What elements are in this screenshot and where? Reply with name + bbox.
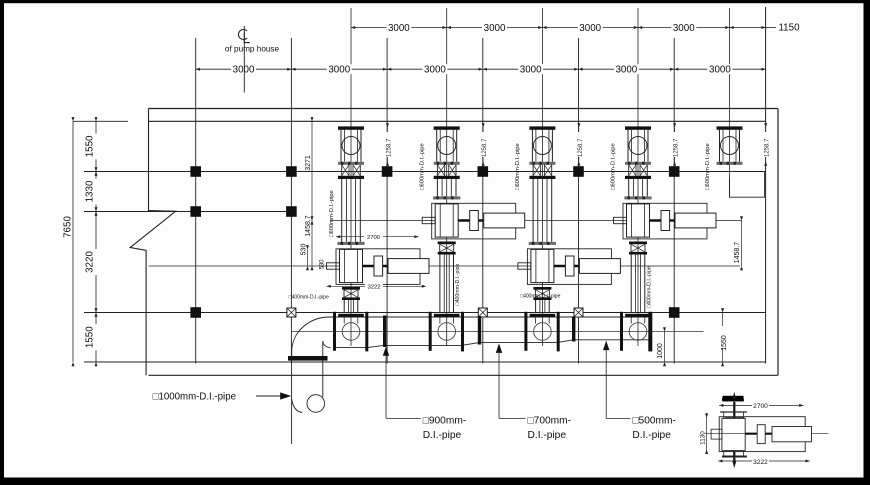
header bottom under tee 2 xyxy=(429,344,461,346)
intake unit U5: top flange xyxy=(717,126,743,129)
dim 3271 xyxy=(311,121,313,220)
header tee 4: branch circle xyxy=(629,323,647,341)
svg-text:□400mm-D.I.-pipe: □400mm-D.I.-pipe xyxy=(289,295,329,301)
header tee 1: branch pipe walls xyxy=(343,317,345,324)
1000mm pipe break symbol xyxy=(307,395,325,413)
pump P4: motor M4 xyxy=(675,213,716,228)
header tee 3: left flange xyxy=(524,312,527,351)
dim 7650 overall vertical line xyxy=(72,121,74,362)
column at grid 2 row B xyxy=(286,166,297,177)
svg-text:of pump house: of pump house xyxy=(225,45,280,54)
detail: top flange xyxy=(720,411,747,413)
svg-text:3000: 3000 xyxy=(233,65,255,76)
svg-text:3000: 3000 xyxy=(709,65,731,76)
header tee 2: right flange xyxy=(461,312,464,352)
grid row C xyxy=(84,211,292,213)
svg-text:1130: 1130 xyxy=(700,431,707,445)
svg-text:3000: 3000 xyxy=(484,23,506,34)
detail: baseplate xyxy=(719,417,805,452)
leader arrow for 700mm xyxy=(496,343,502,353)
reducer flange at x=573.5 xyxy=(572,317,575,342)
svg-text:3222: 3222 xyxy=(753,459,768,466)
svg-text:3000: 3000 xyxy=(388,23,410,34)
svg-text:D.I.-pipe: D.I.-pipe xyxy=(528,430,567,441)
svg-text:□600mm-D.I.-pipe: □600mm-D.I.-pipe xyxy=(420,143,426,190)
header tee 1: branch circle xyxy=(342,323,360,341)
riser pipe column 1 from y=179 to y=241.9 xyxy=(341,179,343,242)
detail: coupling xyxy=(757,425,765,444)
svg-text:1150: 1150 xyxy=(778,23,800,34)
svg-text:□600mm-D.I.-pipe: □600mm-D.I.-pipe xyxy=(705,143,711,190)
svg-text:3271: 3271 xyxy=(305,155,312,171)
left chain tick at y=312.5 xyxy=(95,308,98,316)
dim 3222 line xyxy=(327,285,427,287)
crossed square marker at grid x=291.4 row D xyxy=(287,308,296,317)
column at grid 5 row B xyxy=(573,166,584,177)
svg-text:1330: 1330 xyxy=(85,180,96,202)
svg-text:1458.7: 1458.7 xyxy=(734,242,741,264)
border frame right xyxy=(864,0,870,485)
header tee 3: branch pipe walls xyxy=(535,317,537,324)
pump P1: coupling xyxy=(374,256,383,276)
leader arrow for 900mm xyxy=(383,346,389,356)
riser pipe column 4 from y=179 to y=196.4 xyxy=(628,179,630,196)
pump P1: baseplate xyxy=(336,249,420,285)
intake unit U3: support truss xyxy=(532,165,534,176)
column at grid 1 row C xyxy=(190,206,201,217)
pump P4: coupling xyxy=(661,211,670,231)
pump P4: shaft xyxy=(650,219,676,221)
pump P1: suction flange (gray) xyxy=(337,242,364,245)
header reducer 900-700 xyxy=(461,343,479,346)
detail: top arrowheads on centerline xyxy=(732,393,736,400)
dim 3000 ticks row2 seg 5 xyxy=(579,68,583,71)
svg-text:3220: 3220 xyxy=(85,251,96,273)
pump P3: casing xyxy=(531,249,554,282)
svg-text:□600mm-D.I.-pipe: □600mm-D.I.-pipe xyxy=(515,143,521,190)
intake unit U5: lower flange (gray) xyxy=(717,162,743,165)
pump P2: suction flange (gray) xyxy=(433,196,460,199)
pipe column 4 centerline xyxy=(637,8,639,346)
pump P2: motor M2 xyxy=(484,213,525,228)
wall: top outer xyxy=(149,108,779,110)
dim text 1330 left chain xyxy=(91,179,102,205)
header bottom edge 1000mm section xyxy=(333,347,367,349)
header tee 2: branch pipe walls xyxy=(439,317,441,324)
pump P3: side nozzle xyxy=(518,263,531,269)
column at grid 4 row B xyxy=(478,166,489,177)
elbow inner arc xyxy=(323,341,331,348)
intake unit U3: body walls xyxy=(531,130,533,162)
header tee 3: right flange xyxy=(557,312,560,352)
svg-text:□900mm-: □900mm- xyxy=(423,416,467,427)
column at grid 6 row B xyxy=(669,166,680,177)
pump P2: side nozzle xyxy=(422,217,435,223)
left chain tick at y=362.0 xyxy=(95,362,98,366)
pump P1: casing pipe walls xyxy=(344,249,346,282)
intake unit U1: lower flange (gray) xyxy=(338,162,364,165)
1000mm pipe walls below flange xyxy=(291,361,293,444)
header tee 2: branch circle xyxy=(438,323,456,341)
dim 1258.7 at x=676.4 (rotated) xyxy=(674,128,676,162)
svg-text:1550: 1550 xyxy=(85,326,96,348)
svg-text:1258.7: 1258.7 xyxy=(482,138,488,157)
svg-text:1258.7: 1258.7 xyxy=(674,138,680,157)
centerline of pump house: vertical line xyxy=(243,26,245,93)
intake unit U4: base flange xyxy=(625,176,651,179)
header tee 1: top connection bar xyxy=(338,314,364,317)
grid line 3 vertical xyxy=(386,38,388,364)
intake unit U4: lower flange (gray) xyxy=(625,162,651,165)
header pipe top edge xyxy=(329,316,650,318)
left chain tick at y=121.3 xyxy=(95,117,98,121)
wall: right outer xyxy=(777,109,779,376)
dim 1000 right xyxy=(664,332,666,363)
header reducer 1000-900 xyxy=(367,345,385,347)
pump P4: casing pipe walls xyxy=(631,204,633,237)
svg-text:2700: 2700 xyxy=(367,235,381,241)
grid line 1 vertical xyxy=(195,38,197,364)
dim 1458.7 left xyxy=(311,221,313,267)
pipe column 2 centerline xyxy=(446,8,448,346)
wall: bottom outer xyxy=(149,374,779,376)
wall: top inner xyxy=(73,120,128,122)
pump P2: downpipe to header xyxy=(439,255,441,314)
detail: dim 3222 xyxy=(718,460,809,462)
crossed square marker at grid x=482.8 row D xyxy=(478,308,487,317)
intake unit U3: circle xyxy=(533,137,551,155)
1000mm pipe walls above flange xyxy=(291,352,293,357)
dim 3000 ticks row2 seg 3 xyxy=(387,68,391,71)
pump P3: shaft xyxy=(554,265,580,267)
pump P1: discharge flange pair and bracing xyxy=(342,287,360,290)
svg-text:3000: 3000 xyxy=(579,23,601,34)
left chain tick at y=171.5 xyxy=(95,167,98,175)
grid line 4 vertical xyxy=(482,38,484,364)
header tee 3: top connection bar xyxy=(530,314,556,317)
detail: shaft xyxy=(745,433,772,435)
dim 3000 ticks row2 seg 4 xyxy=(483,68,487,71)
dim text 3220 left chain xyxy=(91,249,102,275)
svg-text:3000: 3000 xyxy=(520,65,542,76)
dim text 1550 left chain xyxy=(91,324,102,350)
svg-text:□400mm-D.I.-pipe: □400mm-D.I.-pipe xyxy=(455,264,461,306)
wall: bottom inner xyxy=(84,361,766,363)
pump P1: motor M1 xyxy=(388,259,429,274)
header tee 3: branch circle xyxy=(534,323,552,341)
detail: bottom arrow xyxy=(732,461,736,468)
pump axis centerline lower (pumps 1 and 3) xyxy=(149,265,741,267)
grid row B xyxy=(84,171,766,173)
header tee 2: left flange xyxy=(429,312,432,351)
header pipe centerline xyxy=(292,331,704,333)
header tee 4: left flange xyxy=(620,312,623,351)
svg-text:1258.7: 1258.7 xyxy=(765,138,771,157)
svg-text:D.I.-pipe: D.I.-pipe xyxy=(423,430,462,441)
pump P1: shaft xyxy=(363,265,389,267)
column at grid 3 row B xyxy=(382,166,393,177)
intake unit U3: base flange xyxy=(529,176,555,179)
pump P2: baseplate xyxy=(432,203,516,239)
grid row D xyxy=(84,312,766,314)
reducer flange at x=384.5 xyxy=(383,316,386,348)
intake unit U5: circle xyxy=(721,137,739,155)
detail: horizontal centerline xyxy=(705,433,829,435)
intake unit U1: base flange xyxy=(338,176,364,179)
dim 3000 ticks row2 seg 1 xyxy=(196,68,200,71)
pump P2: casing xyxy=(435,204,458,237)
intake unit U1: circle xyxy=(342,137,360,155)
intake unit U4: body walls xyxy=(627,130,629,162)
pump P3: coupling xyxy=(565,256,574,276)
dim 1258.7 at x=580.7 (rotated) xyxy=(578,128,580,162)
intake unit U5: body walls xyxy=(719,130,721,162)
recess outline at column 5 xyxy=(730,172,765,198)
intake unit U4: circle xyxy=(629,137,647,155)
dim 1258.7 at x=485 (rotated) xyxy=(482,128,484,162)
svg-text:530: 530 xyxy=(301,244,308,256)
pump P4: casing xyxy=(627,204,650,237)
header bottom edge 900mm section xyxy=(385,344,430,346)
svg-text:3222: 3222 xyxy=(367,285,380,291)
elbow outer arc xyxy=(292,317,330,352)
dim 3000 ticks row2 seg 2 xyxy=(291,68,295,71)
pump P4: downpipe to header xyxy=(630,255,632,314)
grid line 2 vertical xyxy=(290,38,292,364)
detail: motor xyxy=(772,427,812,442)
grid line 6 vertical xyxy=(673,38,675,364)
dim 530 xyxy=(307,249,309,266)
pump P4: baseplate xyxy=(623,203,707,239)
dim 1258.7 at x=389.3 (rotated) xyxy=(387,128,389,162)
pump P1: casing xyxy=(340,249,363,282)
svg-text:7650: 7650 xyxy=(63,216,74,238)
svg-text:1550: 1550 xyxy=(721,335,728,351)
intake unit U2: top flange xyxy=(434,126,460,129)
pump P3: suction flange (gray) xyxy=(529,242,556,245)
svg-text:□600mm-D.I.-pipe: □600mm-D.I.-pipe xyxy=(329,190,335,237)
header tee 4: right flange xyxy=(648,312,652,352)
svg-text:1258.7: 1258.7 xyxy=(578,138,584,157)
svg-text:1000: 1000 xyxy=(657,343,664,359)
detail: bottom flange xyxy=(725,450,745,452)
intake unit U2: support truss xyxy=(436,165,438,176)
column at grid 1 row D xyxy=(190,307,201,318)
header tee 2: top connection bar xyxy=(434,314,460,317)
intake unit U1: top flange xyxy=(338,126,364,129)
svg-text:530: 530 xyxy=(320,259,326,270)
svg-text:D.I.-pipe: D.I.-pipe xyxy=(632,430,671,441)
svg-text:□1000mm-D.I.-pipe: □1000mm-D.I.-pipe xyxy=(153,391,236,402)
svg-text:□400mm-D.I.-pipe: □400mm-D.I.-pipe xyxy=(647,266,653,308)
dim 1258.7 at x=767.5 (rotated) xyxy=(765,128,767,162)
reducer flange at x=479.3 xyxy=(478,316,481,345)
intake unit U4: top flange xyxy=(625,126,651,129)
centerline symbol CL xyxy=(238,29,247,39)
svg-text:1550: 1550 xyxy=(85,135,96,157)
left chain tick at y=211.5 xyxy=(95,207,98,215)
header reducer 700-500 xyxy=(557,340,574,343)
dim text 1550 left chain xyxy=(91,133,102,159)
svg-text:□600mm-D.I.-pipe: □600mm-D.I.-pipe xyxy=(611,143,617,190)
column at grid 6 row D xyxy=(669,307,680,318)
column at grid 2 row C xyxy=(286,206,297,217)
intake unit U1: body walls xyxy=(340,130,342,162)
pump P1: side nozzle xyxy=(327,263,340,269)
dim 2700 line xyxy=(336,236,419,238)
detail: left nozzle xyxy=(711,429,722,439)
intake unit U3: top flange xyxy=(529,126,555,129)
pipe column 3 centerline xyxy=(541,8,543,346)
dim 3000 ticks between col 4 and col 5 xyxy=(638,26,642,29)
pump P2: coupling xyxy=(470,211,479,231)
dim 1458.7 right xyxy=(741,221,743,267)
pump P4: discharge flange pair and bracing xyxy=(629,242,647,245)
svg-text:3000: 3000 xyxy=(615,65,637,76)
svg-text:2700: 2700 xyxy=(753,403,768,410)
pump P3: discharge flange pair and bracing xyxy=(533,287,551,290)
detail: vertical centerline xyxy=(733,393,735,468)
pump P3: casing pipe walls xyxy=(535,249,537,282)
intake unit U2: base flange xyxy=(434,176,460,179)
header tee 1: right flange xyxy=(365,312,368,352)
pump P4: side nozzle xyxy=(614,217,627,223)
intake unit U2: circle xyxy=(438,137,456,155)
header tee 1: left flange xyxy=(333,312,336,351)
header tee 4: branch pipe walls xyxy=(630,317,632,324)
intake unit U2: body walls xyxy=(436,130,438,162)
border frame xyxy=(0,0,870,3)
grid line 5 vertical xyxy=(578,38,580,364)
pump P1: downpipe to header xyxy=(343,300,345,313)
intake unit U4: support truss xyxy=(628,165,630,176)
crossed square marker at grid x=578.5 row D xyxy=(574,308,583,317)
svg-text:1458.7: 1458.7 xyxy=(305,215,312,237)
dim 1550 right xyxy=(722,313,724,363)
dim 3000 ticks row2 seg 6 xyxy=(674,68,678,71)
intake unit U3: lower flange (gray) xyxy=(529,162,555,165)
svg-text:3000: 3000 xyxy=(328,65,350,76)
header bottom edge 700mm section xyxy=(479,342,557,344)
border frame bottom xyxy=(0,478,870,485)
header tee 4: top connection bar xyxy=(625,314,651,317)
column at grid 1 row B xyxy=(190,166,201,177)
intake unit U2: lower flange (gray) xyxy=(434,162,460,165)
svg-text:3000: 3000 xyxy=(673,23,695,34)
riser pipe column 3 from y=179 to y=241.9 xyxy=(532,179,534,242)
svg-text:□700mm-: □700mm- xyxy=(528,416,572,427)
header bottom edge 500mm section xyxy=(574,339,651,341)
svg-text:1258.7: 1258.7 xyxy=(387,138,393,157)
riser pipe column 2 from y=179 to y=196.4 xyxy=(436,179,438,196)
wall: right inner (extends up as 1150 dim extension) xyxy=(765,7,767,364)
pump P2: shaft xyxy=(458,219,484,221)
pump P2: casing pipe walls xyxy=(439,204,441,237)
leader arrow for 1000mm pipe xyxy=(256,395,281,397)
intake unit U1: support truss xyxy=(341,165,343,176)
dim 3000 ticks between col 3 and col 4 xyxy=(542,26,546,29)
detail: pump casing xyxy=(722,418,745,450)
detail: dim 1130 xyxy=(706,413,708,454)
svg-text:□500mm-: □500mm- xyxy=(632,416,676,427)
pump P4: suction flange (gray) xyxy=(624,196,651,199)
svg-text:□400mm-D.I.-pipe: □400mm-D.I.-pipe xyxy=(520,293,560,299)
pump P3: baseplate xyxy=(527,249,611,285)
dimension row 2 line xyxy=(196,68,766,70)
pump axis centerline upper (pumps 2 and 4) xyxy=(330,220,742,222)
pump P2: discharge flange pair and bracing xyxy=(438,242,456,245)
1000mm pipe flange xyxy=(288,356,328,361)
leader arrow for 500mm xyxy=(603,341,609,351)
pipe column 5 centerline xyxy=(729,8,731,197)
border frame left xyxy=(0,0,4,485)
dim 3000 ticks between col 2 and col 3 xyxy=(447,26,451,29)
pump P3: motor M3 xyxy=(579,259,620,274)
pump P3: downpipe to header xyxy=(535,300,537,313)
dim 1150 to right wall xyxy=(730,27,766,29)
left chain dimension line xyxy=(95,121,97,362)
dim 3000 ticks between col 1 and col 2 xyxy=(351,26,355,29)
wall: left with break symbol xyxy=(130,109,175,376)
dimension row 1 line xyxy=(351,27,730,29)
pipe column 1 centerline xyxy=(350,8,352,346)
detail: dim 2700 xyxy=(719,404,803,406)
svg-text:3000: 3000 xyxy=(424,65,446,76)
